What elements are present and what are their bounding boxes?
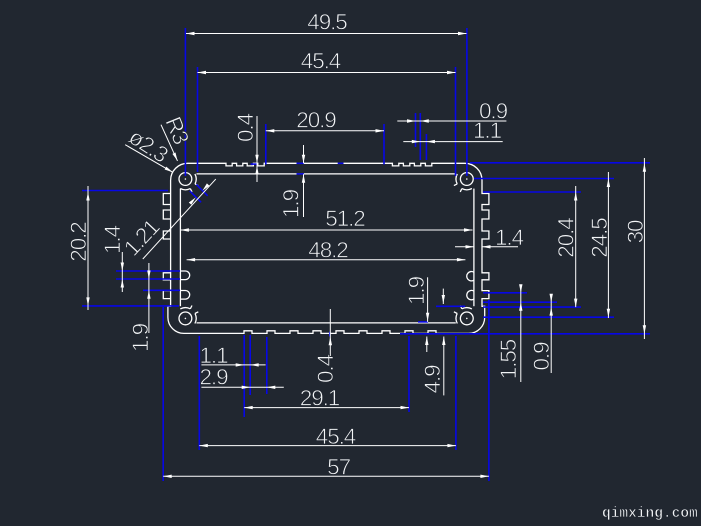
svg-text:0.4: 0.4 [233,113,258,142]
extension line 30 top [470,162,650,164]
extension line 45.4-bottom left [198,336,200,450]
svg-text:30: 30 [623,220,648,243]
dimension 1.1 top-right [403,141,502,143]
dimension 1.1 bottom [201,364,265,366]
extension line 20.2 top [82,190,168,192]
extension line 57 left [162,307,164,481]
dimension 0.4 bottom (notch depth) [329,309,331,356]
svg-text:qimxing.com: qimxing.com [602,506,698,522]
PCB rail right [467,290,474,299]
extension line 20.9 left [265,124,267,165]
extension line rail slot bottom (1.4) [116,278,180,280]
dimension 20.4 right [575,186,577,307]
leader ø2.3 (screw hole) [125,145,173,173]
dimension 45.4 top [198,72,456,74]
extension line 29.1 right [408,336,410,412]
extension line 20.2 bottom [82,305,179,307]
svg-text:29.1: 29.1 [300,386,340,411]
dimension 1.4 right wall [455,246,474,248]
extension line 0.9 left tick [415,113,417,147]
extension line 0.9/1.1 shared tick [419,113,421,160]
inner right wall line [473,189,475,307]
extension line rail slot top (1.4) [116,270,180,272]
svg-text:20.2: 20.2 [66,222,91,262]
inner bottom wall line [197,322,456,324]
svg-text:2.9: 2.9 [200,364,229,389]
extension line 45.4-top left [197,67,199,172]
extension line 1.9 lower-center stub [436,305,465,307]
svg-text:57: 57 [327,455,350,480]
extension line 20.4 top [483,191,581,193]
svg-text:0.4: 0.4 [313,354,338,383]
extension line 1.9 lower left [143,289,180,291]
screw boss bottom-left [180,308,190,309]
extension line 1.55 bottom / 0.9 top [483,301,557,303]
dimension 1.9 lower-center [427,277,429,322]
extension line tick on top edge [338,162,344,164]
dimension 24.5 right [607,172,609,318]
svg-text:1.55: 1.55 [496,339,521,379]
extension line 1.55 top [483,292,527,294]
extension line 1.1 right tick [425,134,427,160]
extension line 57 right [488,300,490,481]
dimension 1.55 [520,285,522,382]
extension line 0.4 bottom stub [329,332,331,337]
svg-text:45.4: 45.4 [301,49,341,74]
svg-text:48.2: 48.2 [308,238,348,263]
extension line 1.9 stub inner [297,173,304,175]
1.21 tick B [190,191,201,202]
screw hole top-right (ø2.3) [460,173,473,186]
extension line 24.5 top [474,178,614,180]
svg-text:1.9: 1.9 [279,189,304,218]
dimension 45.4 bottom [199,445,456,447]
extension line 1.9 tick on inner bottom [418,321,428,323]
svg-text:45.4: 45.4 [316,424,356,449]
dimension 29.1 bottom [244,407,409,409]
screw hole top-left (ø2.3) [179,173,192,186]
extension line 24.5 bottom [483,316,614,318]
dimension 51.2 inner width [180,229,472,231]
screw boss bottom-right [456,314,457,324]
svg-text:0.9: 0.9 [529,342,554,371]
inner top wall line [197,173,456,175]
svg-text:1.1: 1.1 [473,118,502,143]
svg-text:4.9: 4.9 [420,365,445,394]
svg-text:1.9: 1.9 [404,276,429,305]
screw boss top-left [195,174,196,184]
dimension 30 right [643,158,645,339]
dimension 0.9 top-right [397,120,506,122]
extension line 45.4-bottom right [455,336,457,450]
inner left wall line [179,189,181,307]
screw hole bottom-right (ø2.3) [460,312,473,325]
leader R3 (corner radius) [161,125,178,161]
dimension 48.2 rail width [187,259,466,261]
dimension 20.9 top [266,130,384,132]
extension line 49.5 left [184,28,186,176]
dimension 1.21 (diagonal) [143,179,216,259]
dimension 1.4 left (rail slot) [121,252,123,292]
extension line 45.4-top right [455,67,457,176]
dimension 20.2 left [87,186,89,310]
svg-text:1.9: 1.9 [128,323,153,352]
svg-text:1.4: 1.4 [100,225,125,254]
extension line 2.9 right [266,337,268,394]
1.21 tick A [196,185,207,196]
screw hole bottom-left (ø2.3) [179,312,192,325]
svg-text:20.4: 20.4 [554,218,579,258]
dimensions [66,10,648,480]
dimension 2.9 bottom [201,386,283,388]
extension line 1.1/2.9/29.1 left [243,335,245,417]
svg-text:49.5: 49.5 [307,10,347,35]
dimension 4.9 [426,337,428,353]
extension line 20.9 right [383,124,385,165]
extension line 1.9 stub outer [297,162,304,164]
extrusion profile outer outline [163,163,489,333]
dimension 49.5 overall top [186,33,467,35]
PCB rail left [180,291,189,300]
svg-text:20.9: 20.9 [296,108,336,133]
extension line 30 bottom [400,333,650,335]
blue extension lines [82,28,650,481]
svg-text:1.4: 1.4 [495,225,524,250]
extension line 1.1 right / 2.9 left [249,335,251,395]
screw boss top-right [462,189,472,190]
dimension 0.4 top (notch depth) [256,116,258,182]
dimension 1.9 lower-left [148,263,150,333]
dimension 0.9 lower-right [550,294,552,373]
dimension 57 overall [163,475,489,477]
PCB rail right [467,272,474,281]
extension line 49.5 right [466,28,468,176]
PCB rail left [180,271,189,280]
svg-text:51.2: 51.2 [325,206,365,231]
extension line 0.9 bottom / 20.4 bottom [483,306,581,308]
extension line 0.4 stub on top edge [251,163,258,165]
svg-text:24.5: 24.5 [587,218,612,258]
dimension 1.9 top wall [303,145,305,163]
